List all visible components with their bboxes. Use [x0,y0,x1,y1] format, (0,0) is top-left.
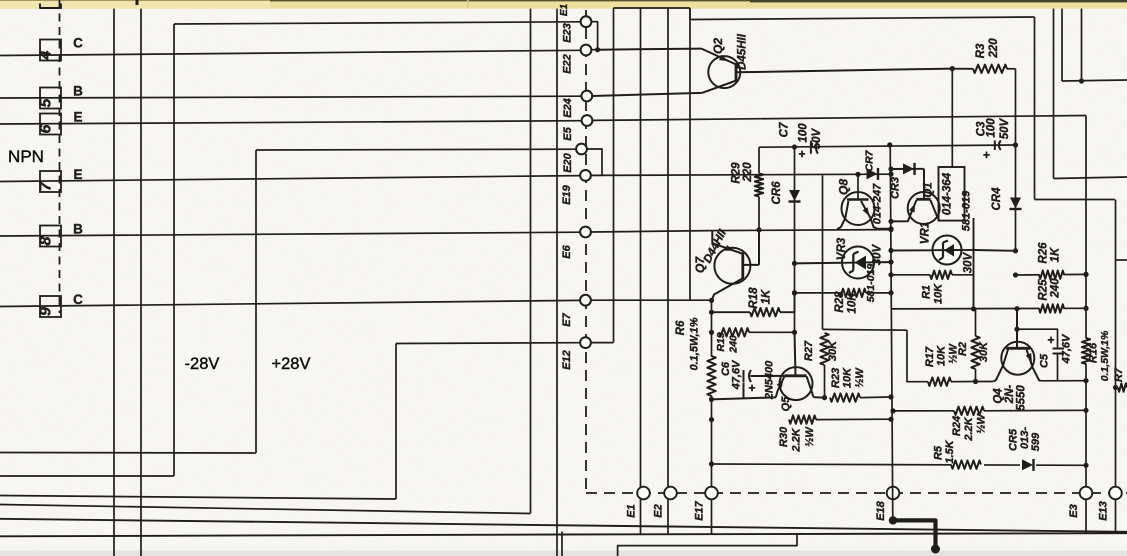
transistor Q5 circle [780,367,813,400]
svg-text:NPN: NPN [8,147,44,166]
wire cap bus y146 [759,145,1016,147]
svg-text:R18: R18 [748,287,760,309]
wire Q8 base lead [857,174,859,199]
svg-text:-28V: -28V [185,355,220,373]
svg-text:100: 100 [986,118,998,138]
svg-text:C: C [73,292,83,307]
transistor Q7 collector diagonal [712,279,742,300]
svg-text:0.1,5W,1%: 0.1,5W,1% [1099,330,1111,381]
connector box 5 [40,88,61,109]
svg-text:240: 240 [728,335,740,354]
svg-text:R27: R27 [803,340,815,361]
zener VR3 symbol [855,256,867,270]
wire E6 bus to x891 [591,231,711,232]
svg-text:1K: 1K [1050,247,1062,262]
vertical rail x613 (E12 to top comb) [613,8,615,343]
resistor R18 [750,308,780,316]
junction R18 riser top [792,290,797,295]
svg-text:½W: ½W [976,413,988,434]
wire VR1 left [891,249,933,251]
heavy junction E18 [889,516,897,524]
svg-text:R24: R24 [951,416,963,436]
wire R19 to x794 [749,331,795,333]
svg-text:R6: R6 [675,320,687,335]
junction R19 left [709,330,714,335]
junction R25 left rail [971,306,976,311]
junction x1086 y410 [1083,408,1088,413]
wire y329 cross [823,328,908,331]
svg-text:1.5K: 1.5K [944,439,956,463]
wire C5 bottom [1057,354,1059,381]
terminal E24 [581,91,592,102]
resistor R2 [971,336,979,369]
bottom scrollbar band [0,551,1127,556]
svg-text:E2: E2 [653,504,665,517]
junction R24 left [890,408,895,413]
connector box 9 [40,296,61,317]
svg-text:½W: ½W [948,343,960,364]
svg-text:10K: 10K [847,292,859,314]
transistor Q8 circle [842,192,875,225]
vertical rail x973 [973,218,975,309]
wire C5 top branch [1017,329,1058,348]
resistor R28 [839,289,866,297]
svg-text:B: B [73,222,83,237]
svg-text:E19: E19 [561,184,573,204]
svg-text:50V: 50V [811,127,823,149]
diode CR6 [789,190,800,201]
vertical rail x1116 (E13 rail) [1115,200,1117,534]
transistor Q5 collector diagonal [807,376,814,397]
toolbar band background [0,0,1127,9]
svg-text:E18: E18 [875,500,887,520]
transistor Q4 circle [1001,342,1034,375]
svg-text:R3: R3 [975,43,987,58]
junction R29 bottom [756,227,761,232]
svg-text:Q2: Q2 [711,38,725,54]
vertical rail x141 [140,9,142,556]
resistor R3 [952,68,973,70]
svg-text:240: 240 [1050,278,1062,299]
dashed ground bus [586,492,1127,494]
svg-text:2.2K: 2.2K [963,416,975,441]
resistor R7 (partial) [1118,383,1127,391]
zener VR3 circle [842,247,874,279]
stub wire y260 to right edge [1116,259,1127,261]
junction R18 left [709,310,714,315]
wire y504 to x530 [0,505,531,514]
svg-text:10K: 10K [933,283,945,304]
resistor R6 [707,356,715,396]
long bottom wire A [0,519,1127,532]
bottom step wire [618,533,797,556]
transistor Q7 emitter diagonal [712,243,742,253]
svg-text:30V: 30V [872,243,884,265]
wire Q8 emitter corner [870,218,891,229]
wire corner riser x1086 [1085,116,1087,534]
resistor R27 [820,333,828,365]
svg-text:47,6V: 47,6V [731,359,743,390]
transistor Q1 base bar [916,198,930,201]
wire Q1 emitter corner [891,215,910,221]
transistor Q2 emitter arrow [719,55,728,61]
junction emitter bus x1086 [1083,378,1088,383]
transistor Q1 emitter arrow [909,204,915,213]
diode CR7 [867,168,878,179]
wire Q4 emitter bus [1041,380,1087,382]
terminal E18 [887,487,900,500]
wire y199.5 to right column [1035,199,1115,201]
svg-text:R16: R16 [1088,342,1100,363]
capacitor C7 plates [810,141,812,154]
vertical rail x1015 [1015,69,1017,252]
junction Q8 base [855,172,860,177]
resistor R5 [951,460,981,468]
wire R26 bus [1016,273,1087,276]
transistor Q4 base bar [1006,347,1030,350]
svg-text:R19: R19 [715,332,727,351]
junction CR3 branch [888,166,893,171]
terminal E20 [576,144,587,155]
wire E20 feeder [256,148,576,151]
transistor Q5 base bar [784,374,806,377]
junction R26 left [1013,272,1018,277]
wire Q5 base lead [795,332,796,376]
junction R27 bottom [822,395,827,400]
junction R25 right [1083,306,1088,311]
capacitor C3 plates [994,140,996,150]
wire R18 riser [794,293,796,312]
svg-text:E5: E5 [562,126,574,140]
wire R18 left [712,311,751,313]
svg-text:599: 599 [1030,432,1042,451]
zener VR1 symbol [944,244,954,257]
wire R17 right [951,381,976,383]
svg-text:E7: E7 [561,312,573,326]
wire R29 bottom [758,197,760,230]
svg-text:R30: R30 [778,426,790,447]
wire Q5 emitter bus [712,397,776,399]
wire R2 top [975,309,977,336]
transistor Q8 collector diagonal [845,201,848,218]
svg-text:R7: R7 [1113,367,1125,382]
label box 014-364 [939,167,965,221]
svg-text:50V: 50V [999,117,1011,139]
svg-text:VR3: VR3 [836,237,848,260]
svg-text:E1: E1 [559,3,570,16]
wire C6 to Q5 base bar [751,375,785,377]
svg-text:R28: R28 [834,291,846,313]
junction R23 right [888,394,893,399]
junction C3 right [1013,142,1018,147]
junction Q8 emitter x891 [888,226,893,231]
dashed connector line [59,0,61,313]
vertical rail x530 [530,9,532,514]
junction R5 left [709,461,714,466]
dashed terminal rail x586 [585,10,587,493]
svg-text:014-364: 014-364 [942,172,954,215]
svg-text:CR6: CR6 [771,181,783,205]
wire W4 box6E to E5 [0,121,582,124]
wire R25 bus [891,307,1086,310]
wire R1 left [891,274,930,276]
vertical rail x557 [556,9,558,556]
wire R23 to x891 [860,396,891,399]
transistor Q1 emitter diagonal [910,200,916,215]
resistor R26 wire cover [1040,270,1064,281]
vertical rail x1053 [1053,9,1055,179]
junction E6 bus x891 [888,227,893,232]
resistor R26 [1039,271,1064,279]
bracket E20-E19 [587,149,602,175]
toolbar segment divider [467,0,469,9]
junction Q4 base top [1014,306,1019,311]
wire y19.5 to x1034 [690,17,1035,20]
svg-text:10K: 10K [842,367,854,388]
zener VR3 wire inside [843,261,873,264]
wire Q5 collector to R27 junction [814,396,825,398]
comb bus under toolbar [614,7,691,9]
svg-text:30K: 30K [827,340,839,361]
wire E7 to Q7 rail [591,299,712,301]
svg-text:581-019: 581-019 [961,190,973,231]
wire CR3 corner to Q1 [923,169,925,200]
junction VR3 feed x794 [792,261,797,266]
wire Q7 base drop [711,231,713,244]
junction C6 left [709,397,714,402]
transistor Q4 emitter arrow [1026,353,1032,362]
wire comb corner drop [689,8,691,20]
transistor Q2 circle [708,56,740,88]
svg-text:R17: R17 [924,346,936,367]
svg-text:E22: E22 [562,54,574,74]
svg-text:CR4: CR4 [991,187,1003,211]
svg-text:CR7: CR7 [864,149,876,171]
wire riser x1034 [1034,17,1036,200]
svg-text:9: 9 [38,307,55,316]
wire E12 to x613 riser [591,342,614,344]
svg-text:5550: 5550 [1016,385,1028,411]
svg-text:R23: R23 [830,368,842,388]
svg-text:R5: R5 [933,445,945,460]
svg-text:E1: E1 [626,504,638,517]
heavy wire E18 [893,520,936,551]
connector box 6 [40,114,61,135]
svg-text:VR1: VR1 [920,222,932,244]
junction R30 left [709,417,714,422]
svg-text:014-247: 014-247 [872,183,884,224]
terminal E22 [581,45,592,56]
resistor R6 rail cover [706,357,717,396]
wire y476 to x174 [0,475,174,477]
vertical rail x174 (top wire riser) [173,24,175,476]
resistor R17 [928,378,951,386]
capacitor C6 plates [743,370,745,382]
vertical rail x396 (E12 riser) [395,344,397,500]
heavy blob [931,545,940,554]
wire riser x759 [758,147,760,173]
svg-text:CR3: CR3 [890,177,902,199]
svg-text:+28V: +28V [272,355,311,373]
resistor R25 wire cover [1040,304,1064,315]
svg-text:30K: 30K [978,341,990,362]
wire y452 to x256 [0,452,256,455]
svg-text:C5: C5 [1039,353,1051,368]
svg-text:R29: R29 [731,162,743,184]
wire VR1 right [962,249,974,251]
svg-text:581-019: 581-019 [865,264,877,303]
junction Q4 base C5 branch [1014,327,1019,332]
wire R24 left [893,410,954,412]
svg-text:E17: E17 [694,500,706,520]
wire VR3 right feed [873,261,892,263]
wire Q8 collector corner [837,218,845,230]
wire R24 right [984,409,1086,412]
wire y251 bus [974,249,1016,252]
svg-text:C: C [73,36,83,51]
wire R17 riser [907,330,928,382]
svg-text:Q5: Q5 [780,396,792,412]
junction x1086 y308 [1083,306,1088,311]
diode CR5 gap cover [1020,459,1036,471]
zener VR1 circle [933,236,962,265]
svg-text:+: + [1047,333,1054,347]
svg-text:Q8: Q8 [837,179,851,195]
terminal E23 [581,16,592,27]
wire R1 right [952,274,974,276]
svg-text:E3: E3 [1068,504,1080,517]
vertical rail x1081 [1081,9,1083,81]
resistor R5 gap cover [951,459,984,470]
svg-text:0.1,5W,1%: 0.1,5W,1% [689,317,701,370]
wire Q7 collector riser [758,230,760,265]
junction x1081 y81 [1079,78,1084,83]
junction R3 left [950,66,955,71]
vertical rail x256 (E20 riser) [255,150,257,453]
transistor Q5 emitter arrow [777,379,784,388]
svg-text:+: + [748,381,755,395]
resistor R24 [954,407,984,415]
terminal E6 [580,227,591,238]
resistor R1 [930,271,952,279]
resistor R19 [719,328,749,336]
transistor Q7 circle [714,248,750,284]
svg-text:+: + [983,148,990,162]
svg-text:2N-: 2N- [1004,385,1016,405]
svg-text:E: E [73,110,82,125]
transistor Q7 base bar [741,252,744,279]
svg-text:6: 6 [38,124,55,133]
transistor Q5 emitter diagonal [776,376,785,397]
svg-text:D45HII: D45HII [737,33,749,70]
wire E5 bus to x1086 [592,116,1086,121]
connector box 4 [40,40,61,61]
svg-text:5: 5 [38,97,55,107]
wire R18 right [780,311,795,313]
terminal E13 [1109,487,1122,500]
junction x1086 y465 [1083,463,1088,468]
wire R30 to x891 [816,418,891,420]
svg-text:R1: R1 [921,285,933,299]
terminal E12 [580,337,591,348]
wire E12 left feeder [396,342,580,345]
bracket E23-E22 [591,22,597,50]
transistor Q1 collector diagonal [930,200,939,221]
wire W7 box9C to E7 [0,300,580,306]
svg-text:CR5: CR5 [1008,428,1020,451]
svg-text:Q4: Q4 [993,388,1005,404]
wire E19 branch corner [822,175,824,329]
transistor Q8 emitter diagonal [861,201,870,218]
wire E19 bus to x891 [591,174,890,175]
junction CR7 x891 [888,172,893,177]
junction R19 right [792,330,797,335]
diode CR5 [1022,459,1033,470]
terminal E5 [582,115,593,126]
wire CR3 branch [891,168,924,170]
vertical rail x640 (E1 rail) [640,8,642,535]
wire E6 bus Q7 to x891 [711,230,890,231]
junction R28 left [792,290,797,295]
wire W2 box4C to E22 [0,50,581,55]
terminal E3 [1080,487,1093,500]
svg-text:1K: 1K [761,289,773,304]
wire R3 to corner [1007,68,1016,70]
toolbar tick mark [136,0,139,5]
resistor R16 [1082,338,1090,364]
terminal E1 [637,487,650,500]
svg-text:½W: ½W [804,426,816,447]
terminal E19 [580,170,591,181]
svg-text:100: 100 [798,123,810,143]
vertical rail x114 [113,9,115,556]
terminal E2 [664,487,677,500]
long bottom wire B [0,533,1127,536]
transistor Q8 emitter arrow [863,207,870,216]
wire E22 to Q2 base bend [598,49,702,50]
wire E24 to Q2 bend [592,93,702,96]
junction Q1 emitter x891 [888,219,893,224]
wire R28 right [866,292,891,294]
junction C7 [792,144,797,149]
wire W6 box8B to E6 [0,232,580,236]
resistor R29 [755,173,763,196]
svg-text:8: 8 [38,236,55,245]
transistor Q2 collector diagonal [702,81,735,93]
diode CR3 [903,163,914,174]
svg-text:+: + [798,147,805,161]
svg-text:B: B [73,84,83,99]
transistor Q2 emitter diagonal [702,49,736,64]
svg-text:E24: E24 [562,98,574,118]
wire Q4 base lead [1016,309,1018,349]
wire R17 to Q4 collector [976,381,994,383]
wire W3 box5B to E24 [0,96,582,98]
junction R1 left [888,272,893,277]
connector box 7 [40,171,61,192]
vertical rail x668 (E2 rail) [667,8,669,535]
vertical rail x690 [689,8,691,301]
vertical rail x712 (E17 rail) [711,301,713,535]
vertical x952 drop [951,69,953,167]
svg-text:220: 220 [742,162,754,183]
junction R28 right [888,290,893,295]
vertical rail x1062 [1061,9,1063,81]
wire y81 to right edge [1062,80,1127,81]
resistor R16 rail cover [1081,339,1092,364]
svg-text:2.2K: 2.2K [791,427,803,452]
svg-text:R26: R26 [1038,242,1050,264]
